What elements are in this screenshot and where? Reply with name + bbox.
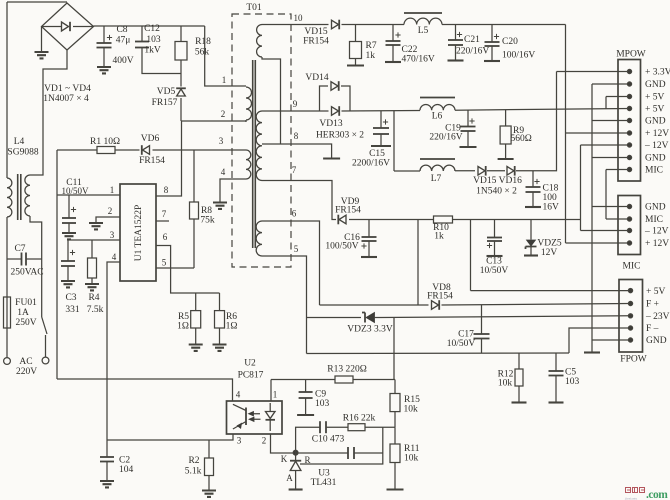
svg-text:L5: L5 bbox=[418, 26, 429, 36]
svg-text:C8: C8 bbox=[116, 25, 127, 35]
label C10 473 bbox=[312, 435, 345, 445]
svg-text:R18: R18 bbox=[195, 37, 211, 47]
wire U1 pin4 column bbox=[107, 262, 120, 440]
label 1A bbox=[17, 308, 29, 318]
svg-text:.com: .com bbox=[646, 489, 668, 500]
wire -12V to MPOW pin7 bbox=[581, 144, 630, 146]
svg-text:VD13: VD13 bbox=[319, 119, 342, 129]
wire AC-L left column bbox=[6, 2, 8, 178]
svg-text:FR154: FR154 bbox=[335, 206, 361, 216]
label A bbox=[286, 473, 293, 483]
label VD13 bbox=[319, 119, 342, 129]
label R7 1k bbox=[366, 51, 376, 61]
winding T01 9-7 bbox=[256, 111, 262, 180]
wire C19 top lead bbox=[467, 110, 469, 127]
label 331 bbox=[65, 305, 80, 315]
svg-text:VD15 VD16: VD15 VD16 bbox=[473, 176, 522, 186]
svg-text:C5: C5 bbox=[565, 368, 576, 378]
capacitor C8 bbox=[97, 35, 113, 48]
wire C18 bottom lead bbox=[532, 192, 534, 206]
wire R18 top lead bbox=[180, 26, 182, 42]
label C3 bbox=[65, 293, 76, 303]
label VD6 bbox=[141, 134, 160, 144]
diode VD9 FR154 bbox=[338, 215, 346, 225]
label 1kV bbox=[144, 46, 161, 56]
svg-text:5.1k: 5.1k bbox=[185, 467, 202, 477]
label VD9 FR154 bbox=[335, 206, 361, 216]
label U2 bbox=[244, 359, 256, 369]
svg-text:GND: GND bbox=[645, 80, 666, 90]
wire GND bus to MPOW pin8 bbox=[592, 157, 630, 159]
label 2200/16V bbox=[352, 159, 390, 169]
label MPOW + 12V bbox=[645, 129, 669, 139]
wire R12 top lead bbox=[518, 353, 520, 369]
label FPOW bbox=[620, 355, 646, 365]
label C9 103 bbox=[315, 399, 330, 409]
pin + 5V of MPOW bbox=[627, 94, 631, 98]
svg-text:FU01: FU01 bbox=[15, 298, 37, 308]
wire TL431 anode lead bbox=[295, 471, 297, 489]
wire pin9 to VD13 bbox=[320, 110, 329, 112]
capacitor comp upper bbox=[320, 421, 326, 433]
ground bar below C15 bbox=[371, 145, 391, 147]
svg-text:7: 7 bbox=[162, 209, 167, 219]
pin – 12V of MPOW bbox=[627, 143, 631, 147]
label K bbox=[281, 454, 288, 464]
svg-text:+ 12V: + 12V bbox=[645, 239, 669, 249]
ground bar below C21 bbox=[448, 59, 464, 61]
svg-text:GND: GND bbox=[645, 203, 666, 213]
label 75k bbox=[200, 216, 215, 226]
wire cap to R16 bbox=[326, 426, 348, 428]
label C22 bbox=[402, 45, 418, 55]
wire VD15b-VD16b link bbox=[487, 170, 505, 172]
connector MPOW box bbox=[618, 60, 641, 182]
capacitor C22 bbox=[386, 32, 401, 45]
wire C5 top lead bbox=[555, 353, 557, 371]
wire 12V rail seg1 bbox=[342, 24, 405, 26]
wire L7 input bbox=[394, 170, 420, 172]
label VD9 bbox=[341, 197, 360, 207]
svg-text:+ 12V: + 12V bbox=[645, 129, 669, 139]
svg-text:1: 1 bbox=[110, 185, 115, 195]
svg-text:F –: F – bbox=[646, 324, 659, 334]
wire opto pin1 riser bbox=[270, 380, 272, 402]
pin – 23V of FPOW bbox=[628, 314, 632, 318]
svg-text:– 23V: – 23V bbox=[645, 312, 670, 322]
wire C10 to right node bbox=[354, 452, 383, 454]
ground bar below C20 bbox=[484, 60, 500, 62]
core of T01 bbox=[253, 60, 256, 248]
wire U1 pin6 to sense line bbox=[156, 246, 220, 294]
svg-text:VDZ5: VDZ5 bbox=[537, 239, 562, 249]
label VD15 FR154 bbox=[303, 37, 329, 47]
diode VD15 FR154 bbox=[332, 20, 340, 30]
capacitor C9 bbox=[299, 392, 313, 398]
pin 2 of U2 bbox=[262, 436, 267, 446]
svg-text:FR157: FR157 bbox=[152, 98, 178, 108]
wire R8 top lead bbox=[193, 150, 195, 202]
svg-text:R6: R6 bbox=[226, 312, 237, 322]
wire T01 pin6 line bbox=[262, 221, 320, 305]
wire VD8 tap column bbox=[417, 220, 419, 306]
resistor R10 bbox=[434, 216, 453, 223]
label R10 1k bbox=[434, 232, 444, 242]
wire L7 feed column bbox=[393, 111, 395, 171]
wire R5 bottom lead bbox=[195, 328, 197, 344]
wire T01 pin9 line bbox=[262, 110, 320, 112]
wire R1 to VD6 bbox=[115, 149, 140, 151]
pin + 3.3V of MPOW bbox=[627, 69, 631, 73]
pin 1 of U1 bbox=[110, 185, 115, 195]
wire L7 to VD15b bbox=[455, 170, 475, 172]
winding T01 10-8 bbox=[257, 25, 262, 58]
label C2 bbox=[119, 456, 130, 466]
label VD8 FR154 bbox=[427, 292, 453, 302]
svg-text:FR154: FR154 bbox=[303, 37, 329, 47]
wire R12 bottom lead bbox=[518, 386, 520, 402]
svg-text:VD14: VD14 bbox=[305, 73, 328, 83]
svg-text:C18: C18 bbox=[543, 184, 559, 194]
resistor R7 bbox=[350, 42, 362, 59]
label C8 bbox=[116, 25, 127, 35]
capacitor C10 bbox=[348, 447, 354, 459]
svg-text:L4: L4 bbox=[14, 137, 25, 147]
wire U1 pin7 stub bbox=[156, 220, 169, 222]
pin 1 of U2 bbox=[273, 390, 278, 400]
svg-text:220/16V: 220/16V bbox=[429, 133, 462, 143]
label R11 bbox=[404, 444, 420, 454]
svg-text:4: 4 bbox=[112, 252, 117, 262]
ground bar below C16 bbox=[361, 256, 377, 258]
label MIC MIC bbox=[645, 215, 663, 225]
terminal AC-L bbox=[4, 358, 11, 365]
wire -12V rail seg2 bbox=[453, 219, 581, 221]
svg-text:250VAC: 250VAC bbox=[10, 268, 43, 278]
label 470/16V bbox=[402, 55, 435, 65]
wire C8 bottom lead bbox=[103, 48, 105, 68]
switch contact bbox=[42, 317, 47, 334]
svg-text:10/50V: 10/50V bbox=[480, 266, 509, 276]
label 560ohm bbox=[511, 134, 532, 144]
wire L4 left to C7 bbox=[6, 217, 8, 259]
svg-text:560Ω: 560Ω bbox=[511, 134, 532, 144]
ground bar below R9 bbox=[498, 158, 514, 160]
svg-text:5: 5 bbox=[162, 258, 167, 268]
svg-text:A: A bbox=[286, 473, 293, 483]
capacitor C20 bbox=[485, 34, 500, 46]
wire comp upper branch left bbox=[296, 427, 320, 453]
label MPOW bbox=[616, 50, 646, 60]
diode VD14 bbox=[331, 81, 339, 91]
wire C17 bottom lead bbox=[481, 339, 483, 354]
pin F – of FPOW bbox=[628, 326, 632, 330]
wire T01 pin5 line bbox=[262, 256, 307, 354]
ground below C2 bbox=[100, 481, 114, 487]
wire switch column bbox=[41, 259, 43, 317]
pin + 12V of MIC bbox=[627, 241, 631, 245]
ground bar at T01 pin8 bbox=[323, 157, 340, 159]
capacitor C7 bbox=[22, 253, 27, 266]
wire C11 bottom lead bbox=[68, 223, 70, 233]
ground bar below R11 bbox=[387, 488, 404, 490]
svg-text:FR154: FR154 bbox=[139, 156, 165, 166]
label VD6 FR154 bbox=[139, 156, 165, 166]
svg-text:+ 5V: + 5V bbox=[646, 287, 665, 297]
ground bar below C18 bbox=[525, 206, 541, 208]
wire F- line bbox=[307, 352, 570, 355]
wire -23V line left bbox=[307, 317, 362, 319]
diode VD5 FR157 bbox=[176, 88, 186, 96]
wire GND bus to MPOW pin5 bbox=[592, 120, 630, 122]
label R13 220ohm bbox=[327, 365, 367, 375]
inductor L4 right winding bbox=[25, 175, 30, 216]
wire C21 top lead bbox=[455, 25, 457, 41]
ground bar below C19 bbox=[460, 146, 477, 148]
label VD15 top bbox=[304, 27, 327, 37]
pin MIC of MIC bbox=[627, 217, 631, 221]
wire C15 bottom lead bbox=[380, 134, 382, 145]
label R9 bbox=[513, 126, 524, 136]
label C5 bbox=[565, 368, 576, 378]
pin F + of FPOW bbox=[628, 301, 632, 305]
svg-text:C12: C12 bbox=[144, 24, 160, 34]
label FPOW F – bbox=[646, 324, 659, 334]
label T01 bbox=[246, 3, 262, 13]
wire VD14 branch bbox=[320, 86, 329, 111]
label C15 bbox=[369, 149, 385, 159]
svg-text:C7: C7 bbox=[14, 244, 25, 254]
label C19 220/16V bbox=[429, 133, 462, 143]
label 7.5k bbox=[87, 305, 104, 315]
label C21 bbox=[464, 35, 480, 45]
ground bar below TL431 bbox=[289, 488, 303, 490]
svg-text:FR154: FR154 bbox=[427, 292, 453, 302]
svg-text:T01: T01 bbox=[246, 3, 262, 13]
label MPOW GND bbox=[645, 117, 666, 127]
wire R5 top lead bbox=[195, 293, 197, 311]
resistor R6 bbox=[215, 311, 225, 328]
svg-text:100/16V: 100/16V bbox=[502, 51, 535, 61]
svg-text:SG9088: SG9088 bbox=[7, 148, 38, 158]
pin – 12V of MIC bbox=[627, 228, 631, 232]
label R15 bbox=[404, 395, 420, 405]
svg-text:16V: 16V bbox=[543, 203, 560, 213]
wire VD5 to drain line bbox=[180, 98, 182, 121]
fuse FU01 bbox=[4, 297, 11, 328]
svg-text:2200/16V: 2200/16V bbox=[352, 159, 390, 169]
svg-text:1A: 1A bbox=[17, 308, 29, 318]
label R5 bbox=[178, 312, 189, 322]
svg-text:220V: 220V bbox=[16, 367, 37, 377]
pin 5 of U1 bbox=[162, 258, 167, 268]
pin GND of FPOW bbox=[628, 338, 632, 342]
wire opto pin4 line bbox=[57, 379, 233, 401]
ground below R5 bbox=[189, 345, 203, 351]
svg-text:103: 103 bbox=[146, 35, 161, 45]
label 220V bbox=[16, 367, 37, 377]
wire +5V raw rail bbox=[342, 110, 421, 113]
svg-text:47μ: 47μ bbox=[116, 36, 131, 46]
ground at bridge minus bbox=[35, 52, 49, 58]
wire U1 pin1 line bbox=[57, 194, 120, 196]
wire AC line top bbox=[7, 1, 67, 3]
pin 4 of U1 bbox=[112, 252, 117, 262]
label R7 bbox=[366, 41, 377, 51]
label C18 16V bbox=[543, 203, 560, 213]
node K junction bbox=[293, 450, 298, 455]
svg-text:2: 2 bbox=[108, 206, 113, 216]
wire R7 bottom lead bbox=[355, 59, 357, 65]
wire K to TL431 bbox=[295, 453, 297, 461]
wire -12V rail bbox=[349, 219, 434, 221]
pin MIC of MPOW bbox=[627, 167, 631, 171]
label C11 10/50V bbox=[62, 186, 90, 196]
svg-text:100: 100 bbox=[543, 193, 558, 203]
label 1N540x2 bbox=[476, 187, 517, 197]
svg-text:jiexiantu: jiexiantu bbox=[624, 497, 637, 500]
wire R18 to VD5 bbox=[180, 60, 182, 87]
wire aux line left end bbox=[57, 149, 97, 151]
svg-text:470/16V: 470/16V bbox=[402, 55, 435, 65]
wire divider R15 lead bbox=[394, 380, 396, 394]
wire rail to T01 pin1 bbox=[205, 26, 246, 86]
wire U1 pin8 to drain column bbox=[156, 121, 182, 196]
label VDZ5 12V bbox=[541, 248, 558, 258]
wire C12 bottom lead bbox=[142, 48, 181, 74]
wire C5 bottom lead bbox=[555, 376, 557, 402]
svg-text:U3: U3 bbox=[318, 469, 330, 479]
wire R2 top lead bbox=[208, 440, 210, 458]
svg-text:1Ω: 1Ω bbox=[177, 322, 189, 332]
svg-text:VDZ3 3.3V: VDZ3 3.3V bbox=[347, 325, 393, 335]
capacitor C13 bbox=[487, 238, 502, 249]
label U1 TEA1522P bbox=[134, 205, 144, 262]
wire C16 top lead bbox=[368, 220, 370, 238]
ground bar below C9 bbox=[297, 414, 314, 416]
wire C11 top lead bbox=[68, 195, 70, 218]
wire MIC bus bbox=[605, 170, 607, 220]
ground below C3 bbox=[61, 281, 75, 287]
label C11 bbox=[66, 178, 82, 188]
ground below R2 bbox=[202, 491, 216, 497]
label VD8 bbox=[432, 283, 451, 293]
svg-text:7.5k: 7.5k bbox=[87, 305, 104, 315]
wire drain line to T01 pin2 bbox=[181, 120, 246, 122]
pin 5 of T01 bbox=[294, 244, 299, 254]
wire C21 bottom lead bbox=[455, 45, 457, 60]
wire VD6 to T01 pin3 bbox=[153, 149, 247, 151]
resistor R18 bbox=[175, 42, 187, 61]
label VD14 bbox=[305, 73, 328, 83]
svg-text:C13: C13 bbox=[486, 257, 502, 267]
svg-text:TL431: TL431 bbox=[311, 478, 337, 488]
label C20 bbox=[502, 37, 518, 47]
label R8 bbox=[201, 206, 212, 216]
LED inside U2 bbox=[266, 403, 276, 431]
svg-text:C20: C20 bbox=[502, 37, 518, 47]
wire F+ line left bbox=[320, 304, 429, 306]
resistor R8 bbox=[190, 202, 199, 219]
label C13 10/50V bbox=[480, 266, 509, 276]
resistor R1 bbox=[97, 147, 115, 154]
wire T01 pin8 tap ground line bbox=[262, 144, 332, 158]
label R6 bbox=[226, 312, 237, 322]
label MPOW GND bbox=[645, 80, 666, 90]
LED arrows in U2 bbox=[249, 412, 261, 422]
wire R16 to node bbox=[365, 426, 395, 428]
label L6 bbox=[432, 112, 443, 122]
svg-text:2: 2 bbox=[262, 436, 267, 446]
wire C13 bottom lead bbox=[494, 241, 496, 255]
phototransistor in U2 bbox=[233, 404, 246, 429]
label C17 bbox=[458, 330, 474, 340]
wire R13 line bbox=[271, 379, 335, 381]
label R2 5.1k bbox=[185, 467, 202, 477]
label VDZ5 bbox=[537, 239, 562, 249]
resistor R9 bbox=[500, 126, 511, 144]
pin 4 of T01 bbox=[221, 167, 226, 177]
wire MIC to MPOW pin9 bbox=[606, 169, 630, 171]
zener diode VDZ3 bbox=[362, 313, 375, 323]
label FPOW + 5V bbox=[646, 287, 665, 297]
label 400V bbox=[112, 56, 133, 66]
svg-text:L7: L7 bbox=[431, 174, 442, 184]
wire C19 bottom lead bbox=[467, 131, 469, 146]
winding T01 1-2 bbox=[246, 87, 252, 120]
label MIC GND bbox=[645, 203, 666, 213]
svg-text:400V: 400V bbox=[112, 56, 133, 66]
svg-text:8: 8 bbox=[294, 131, 299, 141]
wire T01 pin4 to ground bbox=[220, 179, 246, 202]
wire R15 to node bbox=[394, 412, 396, 428]
label FR157 bbox=[152, 98, 178, 108]
svg-text:9: 9 bbox=[293, 99, 298, 109]
ground bar below C5 bbox=[549, 401, 564, 403]
wire R4 bottom lead bbox=[91, 278, 93, 284]
svg-text:R7: R7 bbox=[366, 41, 377, 51]
bridge rectifier VD1-VD4 bbox=[42, 3, 94, 50]
svg-text:GND: GND bbox=[646, 336, 667, 346]
svg-text:MIC: MIC bbox=[645, 166, 663, 176]
wire R9 bottom lead bbox=[505, 144, 507, 158]
wire winding10 to tap column bbox=[262, 57, 281, 144]
capacitor C15 bbox=[373, 119, 389, 134]
svg-text:R5: R5 bbox=[178, 312, 189, 322]
label R4 bbox=[88, 293, 99, 303]
wire U1 pin5 stub bbox=[156, 267, 194, 269]
wire pin3-R2 line bbox=[107, 434, 233, 440]
label U3 bbox=[318, 469, 330, 479]
svg-text:331: 331 bbox=[65, 305, 80, 315]
svg-text:R1 10Ω: R1 10Ω bbox=[90, 137, 120, 147]
wire +3.3V rail bbox=[516, 72, 557, 171]
svg-text:C3: C3 bbox=[65, 293, 76, 303]
wire R9 top lead bbox=[505, 110, 507, 126]
svg-text:220/16V: 220/16V bbox=[456, 47, 489, 57]
label PC817 bbox=[238, 371, 264, 381]
svg-text:C15: C15 bbox=[369, 149, 385, 159]
svg-text:103: 103 bbox=[315, 399, 330, 409]
wire node to R11 bbox=[394, 427, 396, 444]
pin GND of MPOW bbox=[627, 155, 631, 159]
wire C22 bottom lead bbox=[392, 45, 394, 61]
svg-text:C17: C17 bbox=[458, 330, 474, 340]
svg-text:VD15: VD15 bbox=[304, 27, 327, 37]
pin 2 of T01 bbox=[221, 109, 226, 119]
svg-text:C2: C2 bbox=[119, 456, 130, 466]
resistor R15 bbox=[390, 394, 400, 412]
